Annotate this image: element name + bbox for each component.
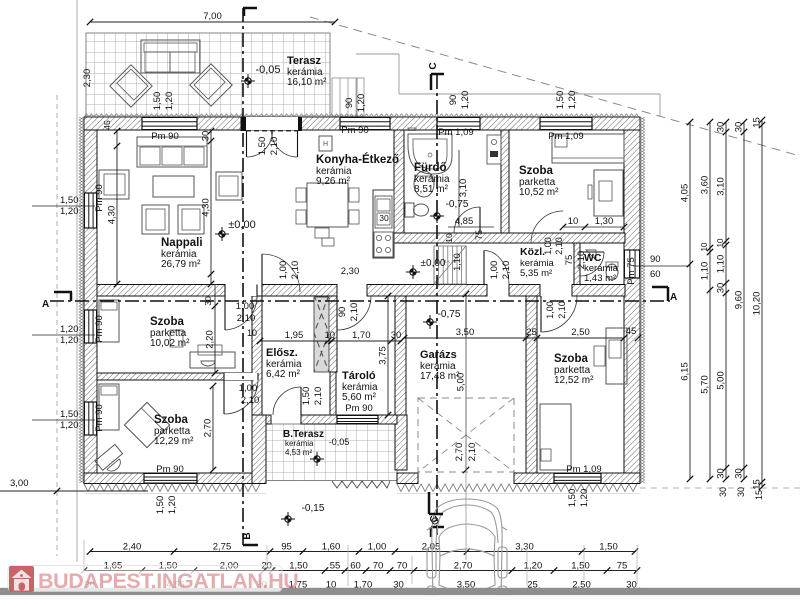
door szoba-br xyxy=(540,296,542,332)
garage szoba dim xyxy=(404,337,624,339)
svg-text:1,20: 1,20 xyxy=(60,324,79,335)
svg-text:1,50: 1,50 xyxy=(571,561,590,572)
plot boundary thin line left xyxy=(76,0,78,562)
svg-text:2,70: 2,70 xyxy=(203,419,214,438)
level -0.15 garden xyxy=(285,516,291,522)
level -0.05 bterasz xyxy=(314,456,320,462)
svg-text:2,10: 2,10 xyxy=(557,301,567,319)
svg-text:1,50: 1,50 xyxy=(155,496,166,515)
wc basin xyxy=(586,250,596,260)
svg-text:75: 75 xyxy=(617,561,628,572)
dimension extension lines xyxy=(83,540,85,586)
wall elosz-tarolo xyxy=(329,296,337,372)
svg-text:1,20: 1,20 xyxy=(167,496,178,515)
svg-text:-0,75: -0,75 xyxy=(438,309,461,320)
tarolo dim v xyxy=(387,296,389,415)
svg-text:10,20: 10,20 xyxy=(752,292,763,316)
svg-text:10,52 m²: 10,52 m² xyxy=(519,187,559,198)
door szoba1 xyxy=(224,296,226,330)
level +0.00 nappali xyxy=(219,231,225,237)
svg-text:16,10 m²: 16,10 m² xyxy=(287,77,327,88)
wall between left szobas xyxy=(97,373,262,380)
szoba1 bed xyxy=(99,300,119,342)
terrace Terasz tiled floor xyxy=(86,33,330,117)
svg-text:Pm 1,09: Pm 1,09 xyxy=(438,127,473,138)
gate mark xyxy=(428,492,431,514)
watermark bar xyxy=(8,566,282,592)
svg-text:2,10: 2,10 xyxy=(290,261,301,280)
wall WC left xyxy=(574,243,580,285)
svg-text:1,20: 1,20 xyxy=(60,335,79,346)
right dim line 5 xyxy=(761,120,763,487)
svg-text:1,00: 1,00 xyxy=(543,237,553,255)
svg-text:5,00: 5,00 xyxy=(456,373,467,392)
svg-text:10: 10 xyxy=(700,242,709,251)
back terrace B.Terasz tiled floor xyxy=(266,424,397,481)
svg-text:4,30: 4,30 xyxy=(201,198,212,217)
nappali side chair right xyxy=(216,172,242,200)
svg-text:1,00: 1,00 xyxy=(368,542,387,553)
door szoba2 xyxy=(223,380,225,414)
svg-text:3,10: 3,10 xyxy=(458,179,469,198)
svg-text:1,20: 1,20 xyxy=(460,91,471,110)
door furdo xyxy=(479,207,481,233)
terrace sofa xyxy=(141,40,200,73)
kitchen table xyxy=(307,183,348,227)
window konyha north xyxy=(340,117,390,130)
exterior wall right insulation xyxy=(640,117,645,483)
wall bterasz top xyxy=(266,415,271,424)
svg-text:1,50: 1,50 xyxy=(567,489,578,508)
svg-text:5,60 m²: 5,60 m² xyxy=(342,392,377,403)
door kozl-garage xyxy=(483,251,485,285)
svg-text:3,50: 3,50 xyxy=(456,327,475,338)
svg-text:Fürdő: Fürdő xyxy=(414,162,447,174)
nappali sofa xyxy=(137,137,207,167)
svg-text:Pm 90: Pm 90 xyxy=(151,131,178,142)
svg-text:2,40: 2,40 xyxy=(123,542,142,553)
svg-text:30: 30 xyxy=(716,122,727,133)
svg-text:1,50: 1,50 xyxy=(555,91,566,110)
svg-text:1,43 m²: 1,43 m² xyxy=(584,273,616,284)
svg-text:Szoba: Szoba xyxy=(554,353,588,365)
exterior wall left xyxy=(84,130,97,474)
window szoba-tr north xyxy=(540,117,592,130)
svg-text:55: 55 xyxy=(330,561,341,572)
middle wall H2 right b xyxy=(572,285,625,297)
exterior wall right xyxy=(624,130,640,474)
svg-text:9,26 m²: 9,26 m² xyxy=(316,176,351,187)
svg-text:H: H xyxy=(323,141,328,148)
svg-text:30: 30 xyxy=(391,330,402,341)
svg-text:Pm 90: Pm 90 xyxy=(341,125,368,136)
svg-text:2,10: 2,10 xyxy=(554,237,564,255)
svg-text:1,50: 1,50 xyxy=(60,195,79,206)
window szoba1 west xyxy=(84,310,97,343)
nappali dim left xyxy=(116,131,118,284)
svg-text:-0,75: -0,75 xyxy=(446,199,469,210)
svg-text:1,00: 1,00 xyxy=(239,383,258,394)
svg-text:4,85: 4,85 xyxy=(455,216,474,227)
svg-text:1,50: 1,50 xyxy=(60,409,79,420)
svg-text:1,20: 1,20 xyxy=(567,91,578,110)
svg-text:2,10: 2,10 xyxy=(349,303,360,322)
svg-text:90: 90 xyxy=(448,95,459,106)
svg-text:10: 10 xyxy=(568,216,579,227)
bathtub corner xyxy=(408,134,452,174)
svg-text:Pm 90: Pm 90 xyxy=(94,404,105,431)
nappali coffee table xyxy=(153,176,194,197)
svg-text:95: 95 xyxy=(281,542,292,553)
svg-text:Terasz: Terasz xyxy=(287,55,322,67)
svg-text:10: 10 xyxy=(324,330,335,341)
szoba2 chair rotated xyxy=(124,402,169,447)
svg-text:30: 30 xyxy=(734,122,745,133)
svg-text:Szoba: Szoba xyxy=(150,316,184,328)
furdo dim 3.10 xyxy=(458,150,460,227)
window wc east xyxy=(624,250,640,278)
svg-text:70: 70 xyxy=(373,561,384,572)
svg-text:2,10: 2,10 xyxy=(269,137,280,156)
svg-text:15: 15 xyxy=(752,479,763,490)
wall bterasz right / garage left xyxy=(395,415,407,470)
svg-text:±0,00: ±0,00 xyxy=(421,258,446,269)
middle wall H2 at elosz xyxy=(262,285,337,297)
svg-text:1,30: 1,30 xyxy=(595,216,614,227)
svg-text:75: 75 xyxy=(474,230,484,240)
right dim line 1 xyxy=(689,122,691,479)
terrace door opening xyxy=(246,117,298,130)
wall furdo-szoba xyxy=(501,130,509,233)
svg-text:12,29 m²: 12,29 m² xyxy=(154,436,194,447)
svg-text:Pm 90: Pm 90 xyxy=(94,315,105,342)
svg-text:15: 15 xyxy=(754,490,764,500)
svg-text:7,00: 7,00 xyxy=(203,11,222,22)
szoba-tr desk xyxy=(594,170,623,216)
svg-text:2,10: 2,10 xyxy=(501,261,512,280)
svg-text:±0,00: ±0,00 xyxy=(228,219,255,231)
svg-text:30: 30 xyxy=(201,131,212,142)
window szoba2 west xyxy=(84,402,97,435)
svg-text:30: 30 xyxy=(718,487,728,497)
exterior wall bottom segment right xyxy=(514,473,640,484)
svg-text:BUDAPEST.INGATLAN.HU: BUDAPEST.INGATLAN.HU xyxy=(38,569,298,593)
kitchen fridge xyxy=(319,136,332,151)
svg-text:Pm 75: Pm 75 xyxy=(626,257,637,284)
svg-text:2,10: 2,10 xyxy=(237,313,256,324)
svg-text:Pm 90: Pm 90 xyxy=(345,403,372,414)
terrace entry steps xyxy=(332,78,364,116)
nappali side chair left xyxy=(99,170,129,199)
svg-text:1,20: 1,20 xyxy=(60,206,79,217)
svg-text:5,00: 5,00 xyxy=(716,371,727,390)
window szoba-bl south xyxy=(144,473,197,484)
svg-text:30: 30 xyxy=(716,468,727,479)
door szoba1 opening xyxy=(225,285,257,297)
svg-text:1,70: 1,70 xyxy=(352,330,371,341)
svg-text:12,52 m²: 12,52 m² xyxy=(554,375,594,386)
nappali armchair 2 xyxy=(178,205,204,234)
plot boundary dashed line left xyxy=(56,95,58,556)
svg-text:Közl.: Közl. xyxy=(520,246,545,258)
svg-text:4,53 m²: 4,53 m² xyxy=(285,448,312,457)
right dim line 2 xyxy=(709,122,711,479)
svg-text:2,30: 2,30 xyxy=(82,69,93,88)
svg-text:1,50: 1,50 xyxy=(257,137,268,156)
svg-text:1,00: 1,00 xyxy=(278,261,289,280)
svg-text:Konyha-Étkező: Konyha-Étkező xyxy=(316,153,399,166)
svg-text:1,00: 1,00 xyxy=(545,301,555,319)
svg-text:A: A xyxy=(670,292,677,303)
svg-text:3,60: 3,60 xyxy=(700,176,711,195)
svg-text:Szoba: Szoba xyxy=(154,414,188,426)
right dim line 3 xyxy=(725,122,727,479)
svg-text:60: 60 xyxy=(650,269,661,280)
toilet xyxy=(405,203,414,217)
svg-text:2,50: 2,50 xyxy=(571,327,590,338)
svg-text:Pm 90: Pm 90 xyxy=(156,464,183,475)
window nappali north xyxy=(142,117,197,130)
svg-text:2,20: 2,20 xyxy=(205,330,216,349)
exterior wall top insulation xyxy=(84,114,639,117)
svg-text:Pm 1,09: Pm 1,09 xyxy=(548,131,583,142)
svg-text:2,10: 2,10 xyxy=(241,395,260,406)
exterior wall bottom segment mid xyxy=(397,473,418,484)
terrace chair right xyxy=(190,64,232,106)
door wc xyxy=(580,251,604,253)
svg-text:1,60: 1,60 xyxy=(322,542,341,553)
level +0.00 kozl xyxy=(410,269,416,275)
svg-text:2,30: 2,30 xyxy=(341,266,360,277)
top dimension 7.00 xyxy=(90,21,335,23)
section line A xyxy=(50,300,670,302)
nappali dim right xyxy=(210,131,212,284)
svg-text:75: 75 xyxy=(564,255,575,266)
terrace door leaf left xyxy=(246,131,248,157)
terrace door leaf right xyxy=(297,131,299,157)
exterior wall bottom segment left xyxy=(84,473,266,484)
svg-text:2,10: 2,10 xyxy=(576,251,587,270)
svg-text:15: 15 xyxy=(752,117,763,128)
svg-text:Pm 90: Pm 90 xyxy=(94,184,105,211)
svg-text:90: 90 xyxy=(650,254,661,265)
svg-text:10: 10 xyxy=(716,238,725,247)
kitchen stove xyxy=(374,232,393,257)
svg-text:1,50: 1,50 xyxy=(599,542,618,553)
svg-text:30: 30 xyxy=(379,213,389,223)
svg-text:26,79 m²: 26,79 m² xyxy=(161,259,201,270)
svg-text:60: 60 xyxy=(350,561,361,572)
svg-text:4,05: 4,05 xyxy=(680,184,691,203)
svg-text:B: B xyxy=(242,532,253,539)
svg-text:1,20: 1,20 xyxy=(164,92,175,111)
szoba2 dim xyxy=(212,386,214,470)
kitchen sink xyxy=(375,196,392,228)
svg-text:-0,05: -0,05 xyxy=(329,437,350,447)
nappali armchair 1 xyxy=(142,205,169,234)
watermark house icon xyxy=(9,566,34,592)
window szoba-br south xyxy=(554,473,601,484)
szoba-br bed xyxy=(540,404,571,470)
svg-text:2,70: 2,70 xyxy=(454,561,473,572)
diagonal property boundary dashed xyxy=(310,17,800,156)
svg-text:1,20: 1,20 xyxy=(524,561,543,572)
door tarolo xyxy=(336,296,338,330)
entry door elosz-bterasz xyxy=(300,387,302,415)
svg-text:1,20: 1,20 xyxy=(60,420,79,431)
svg-text:3,10: 3,10 xyxy=(716,177,727,196)
garden level dashed line right xyxy=(640,487,800,489)
bottom dimension row 2 xyxy=(84,570,637,572)
svg-text:25: 25 xyxy=(526,327,537,338)
wall elosz-tarolo lower thin xyxy=(330,372,336,415)
svg-text:Elősz.: Elősz. xyxy=(266,347,298,359)
svg-text:1,50: 1,50 xyxy=(152,92,163,111)
svg-text:Tároló: Tároló xyxy=(342,370,376,382)
car top view xyxy=(427,499,507,600)
kitchen chairs xyxy=(296,188,306,202)
svg-text:-0,15: -0,15 xyxy=(302,503,325,514)
svg-text:Nappali: Nappali xyxy=(161,237,203,249)
svg-text:30: 30 xyxy=(734,468,745,479)
wall tarolo-garage xyxy=(395,296,406,415)
svg-text:1,95: 1,95 xyxy=(285,330,304,341)
wall konyha-furdo xyxy=(394,130,404,243)
svg-text:-0,05: -0,05 xyxy=(255,64,280,76)
wc toilet xyxy=(606,264,618,280)
section line B xyxy=(242,8,244,545)
wall bterasz left xyxy=(252,415,266,484)
svg-text:1,20: 1,20 xyxy=(579,489,590,508)
wall garage-szoba xyxy=(526,296,537,473)
svg-text:C: C xyxy=(428,62,439,69)
svg-text:90: 90 xyxy=(337,307,348,318)
svg-text:9,60: 9,60 xyxy=(734,291,745,310)
svg-text:6,15: 6,15 xyxy=(680,362,691,381)
svg-text:1,20: 1,20 xyxy=(356,94,367,113)
svg-text:70: 70 xyxy=(397,561,408,572)
svg-text:5,35 m²: 5,35 m² xyxy=(520,268,552,279)
window furdo north xyxy=(437,117,480,130)
chimney shaft xyxy=(314,297,329,372)
door szoba-tr xyxy=(531,242,563,244)
svg-text:1,00: 1,00 xyxy=(236,301,255,312)
bottom dimension row 3 xyxy=(84,590,637,592)
elosz tarolo dim xyxy=(260,340,401,342)
bottom dimension row 1 xyxy=(90,551,635,553)
svg-text:1,10: 1,10 xyxy=(452,253,462,271)
svg-text:1,10: 1,10 xyxy=(716,255,727,274)
middle wall H2 left (below nappali) xyxy=(97,285,225,297)
wall elosz left xyxy=(252,296,262,415)
right dim line 4 xyxy=(743,122,745,479)
svg-text:1,50: 1,50 xyxy=(301,387,312,406)
attic stairs xyxy=(433,246,435,284)
left dim 3.00 xyxy=(0,490,148,492)
section line C xyxy=(436,75,438,535)
terrace steps marks xyxy=(332,481,390,488)
szoba1 desk xyxy=(190,352,235,368)
svg-text:30: 30 xyxy=(716,283,727,294)
svg-text:17,48 m²: 17,48 m² xyxy=(420,371,460,382)
svg-text:6,42 m²: 6,42 m² xyxy=(266,369,301,380)
middle wall H2 right a xyxy=(509,285,540,297)
kitchen counter xyxy=(373,190,394,258)
svg-text:3,75: 3,75 xyxy=(378,346,389,365)
svg-text:2,10: 2,10 xyxy=(467,443,478,462)
window tarolo south xyxy=(337,415,378,424)
svg-text:4,30: 4,30 xyxy=(107,206,118,225)
svg-text:A: A xyxy=(42,299,49,310)
level -0.75 furdo xyxy=(434,213,440,219)
svg-text:2,75: 2,75 xyxy=(213,542,232,553)
wall below furdo and szoba xyxy=(394,233,625,243)
svg-text:45: 45 xyxy=(102,120,112,130)
szoba-tr bed xyxy=(552,134,624,163)
szoba1 30 annot xyxy=(214,284,216,306)
level -0.05 terasz xyxy=(245,78,251,84)
washbasin xyxy=(414,171,434,197)
szoba1 dim xyxy=(214,306,216,373)
svg-text:10,02 m²: 10,02 m² xyxy=(150,338,190,349)
szoba2 shelf rotated xyxy=(95,444,128,476)
exterior wall bottom insulation xyxy=(84,484,260,492)
svg-text:30: 30 xyxy=(736,487,746,497)
svg-text:1,10: 1,10 xyxy=(700,262,711,281)
svg-text:45: 45 xyxy=(626,326,637,337)
exterior wall top xyxy=(84,117,640,130)
svg-text:kerámia: kerámia xyxy=(285,439,314,448)
svg-text:3,00: 3,00 xyxy=(10,478,29,489)
svg-text:3,30: 3,30 xyxy=(515,542,534,553)
door szoba2 opening xyxy=(224,373,258,380)
door konyha-elosz xyxy=(261,254,263,292)
svg-text:10: 10 xyxy=(444,233,454,243)
exterior wall left insulation xyxy=(79,117,84,483)
svg-text:Szoba: Szoba xyxy=(519,165,553,177)
garage dim v xyxy=(465,294,467,470)
svg-text:90: 90 xyxy=(344,98,355,109)
middle wall H2 mid xyxy=(367,285,487,297)
svg-text:8,51 m²: 8,51 m² xyxy=(414,184,449,195)
svg-text:10: 10 xyxy=(247,328,257,338)
furdo towel rail xyxy=(408,128,416,131)
svg-text:1,00: 1,00 xyxy=(489,261,500,280)
svg-text:5,70: 5,70 xyxy=(700,375,711,394)
svg-text:30: 30 xyxy=(203,296,213,306)
szoba2 bed xyxy=(99,384,119,430)
furdo cabinet xyxy=(487,135,501,164)
svg-text:2,70: 2,70 xyxy=(454,443,465,462)
szoba-br desk xyxy=(606,328,627,384)
terrace chair left xyxy=(110,65,152,107)
garage door dashed outline xyxy=(418,398,514,472)
window nappali west xyxy=(84,193,97,228)
svg-text:Garázs: Garázs xyxy=(420,349,457,361)
roof eave line xyxy=(356,53,399,55)
level -0.75 garage xyxy=(427,319,433,325)
svg-text:Pm 1,09: Pm 1,09 xyxy=(566,464,601,475)
bottom gray bar xyxy=(0,588,800,595)
svg-text:2,10: 2,10 xyxy=(313,387,324,406)
